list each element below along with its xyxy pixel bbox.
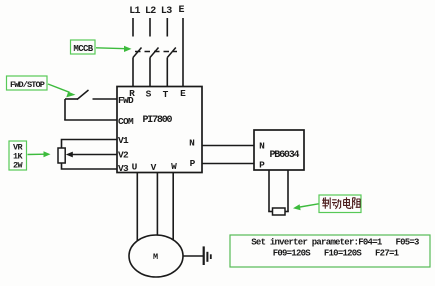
svg-text:L1: L1 [129,6,140,17]
braking resistor callout arrow [293,204,319,211]
label VR 1K 2W callout box [9,141,27,171]
svg-text:P: P [190,158,196,169]
svg-text:P: P [259,160,265,171]
wire inverter N to PB N [202,145,254,147]
braking unit U2 PB6034 box [254,130,304,170]
wire L1 to breaker [132,18,134,37]
inverter U1 PI7800 box [117,87,202,173]
wire V to motor [156,173,158,238]
wire inverter P to PB P [202,163,254,165]
svg-text:FWD/STOP: FWD/STOP [10,80,45,90]
svg-text:MCCB: MCCB [73,44,93,54]
wire resistor right stub [285,211,289,213]
label FWD/STOP callout box [7,76,48,90]
note box set inverter parameter [230,235,430,267]
motor M body [129,235,183,277]
glyph 阻 [353,198,361,209]
wire pot bottom to V3 [62,163,118,169]
svg-text:V1: V1 [118,135,129,146]
wire switch to FWD pin [93,98,118,100]
breaker MCCB pole 2 blade [150,48,159,58]
ground symbol [204,246,211,265]
glyph 电 [344,197,351,208]
wire W to motor [172,173,174,243]
svg-text:E: E [178,5,184,16]
svg-text:COM: COM [118,116,134,127]
switch FWD blade [77,90,89,100]
wire breaker pole3 to T [166,58,168,88]
wire switch down leg [64,99,66,120]
wire PB right lead down [287,170,289,212]
VR callout arrow [28,151,51,157]
label 制动电阻 callout box [319,195,361,213]
svg-text:L2: L2 [145,6,156,17]
svg-text:F09=120S F10=120S F27=1: F09=120S F10=120S F27=1 [273,249,400,259]
svg-text:E: E [180,88,186,99]
svg-text:S: S [146,89,152,100]
wire motor to ground [183,255,203,257]
svg-text:V: V [151,162,157,173]
glyph 制 [322,197,330,209]
svg-text:PB6034: PB6034 [270,150,300,161]
breaker MCCB linkage dashed [135,51,177,53]
svg-text:L3: L3 [161,6,172,17]
svg-text:FWD: FWD [118,95,134,106]
wire pot top to V1 [62,140,118,149]
wire L2 to breaker [149,18,151,37]
glyph 动 [332,199,341,209]
wire to COM pin [64,119,117,121]
wire PB left lead down [268,170,270,212]
wire L3 to breaker [166,18,168,37]
resistor RB braking body [273,208,286,215]
wire U to motor [136,173,138,244]
svg-text:V3: V3 [118,163,129,174]
svg-text:2W: 2W [13,161,24,171]
switch FWD left contact wire [65,98,78,100]
wire wiper to V2 [70,154,117,156]
potentiometer VR body [58,148,65,163]
breaker MCCB pole 3 blade [167,48,176,58]
wire breaker pole1 to R [132,58,134,88]
svg-text:PI7800: PI7800 [143,115,173,126]
svg-text:Set inverter parameter:F04=1: Set inverter parameter:F04=1 F05=3 [251,238,419,248]
svg-text:V2: V2 [118,150,129,161]
svg-text:M: M [153,252,158,262]
breaker MCCB pole 1 blade [133,48,142,58]
svg-text:N: N [189,138,195,149]
potentiometer wiper arrow [66,152,73,158]
label MCCB callout box [71,40,96,54]
FWD/STOP callout arrow [48,84,76,97]
MCCB callout arrow [96,46,132,52]
wire resistor left stub [268,211,272,213]
wire E down to inverter [182,18,184,87]
wire breaker pole2 to S [149,58,151,88]
svg-text:U: U [132,162,138,173]
svg-text:N: N [259,141,265,152]
svg-text:T: T [163,89,169,100]
svg-text:W: W [171,161,177,172]
